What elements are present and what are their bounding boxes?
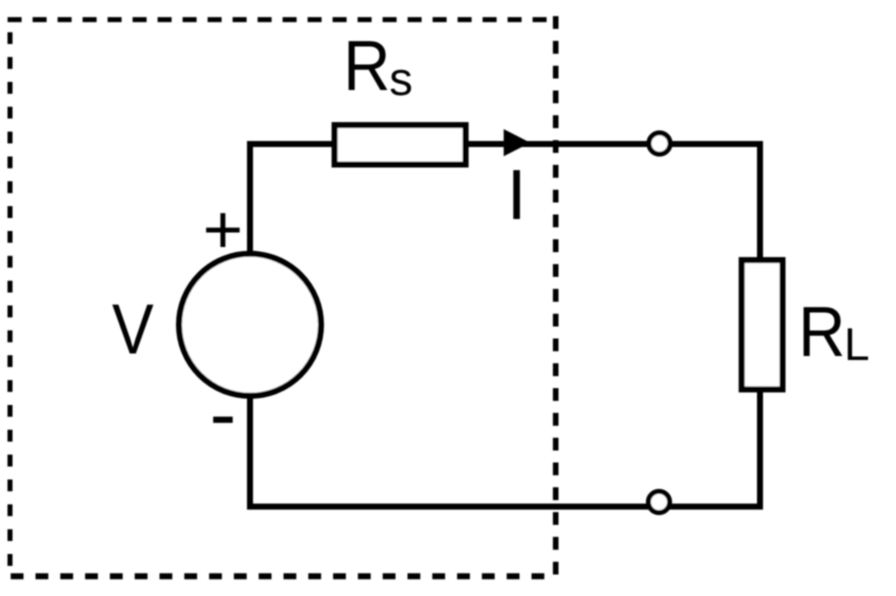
svg-text:I: I	[507, 156, 527, 235]
svg-text:-: -	[210, 369, 237, 458]
svg-text:R: R	[343, 27, 390, 106]
svg-text:s: s	[389, 52, 413, 105]
svg-text:+: +	[203, 191, 243, 268]
svg-text:R: R	[798, 293, 845, 372]
svg-text:L: L	[844, 318, 870, 370]
svg-text:V: V	[112, 291, 154, 370]
